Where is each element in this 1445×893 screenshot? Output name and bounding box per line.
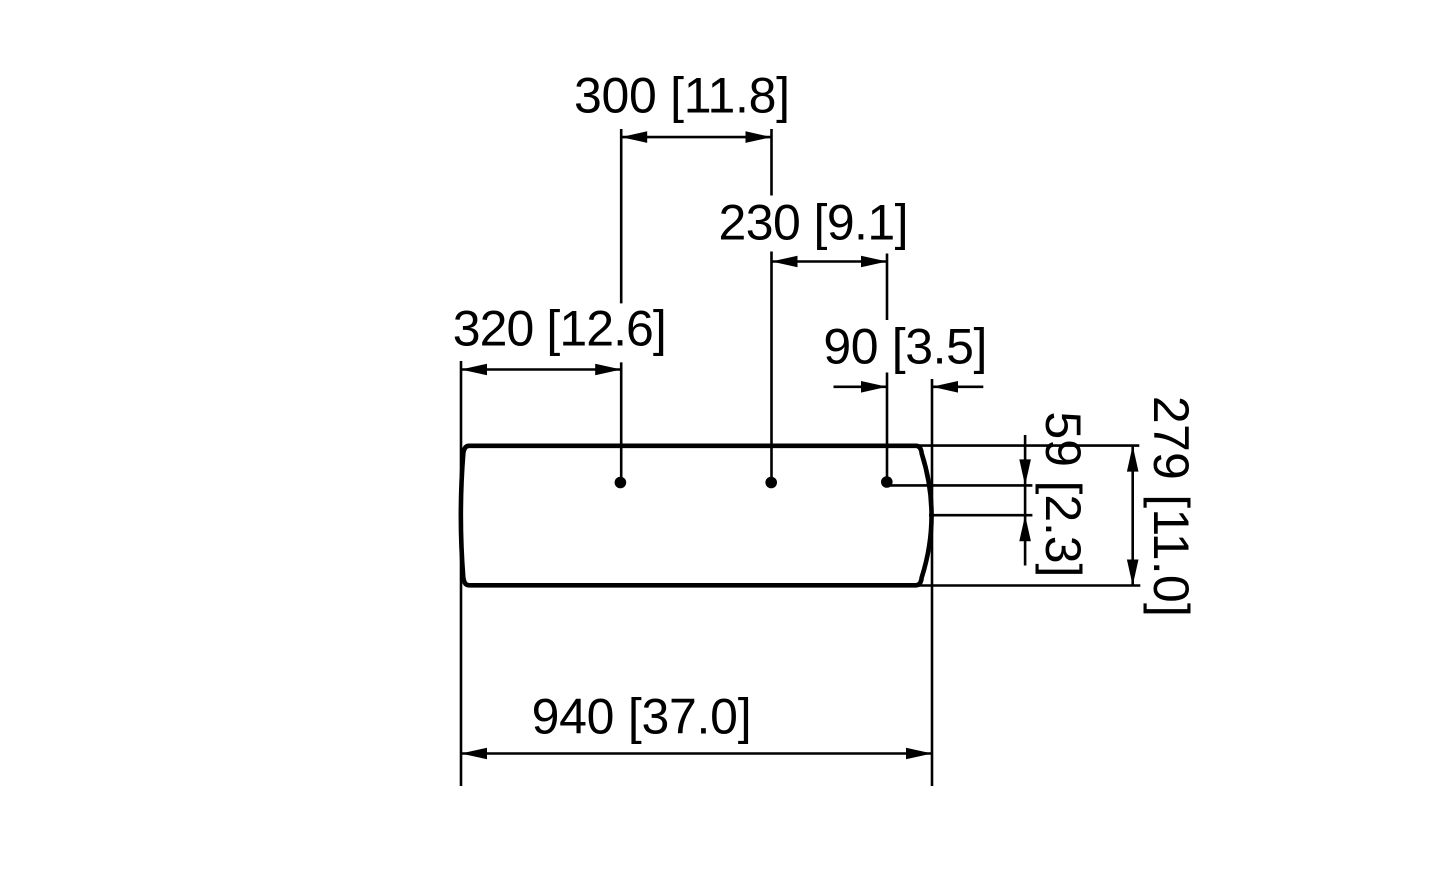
svg-text:279 [11.0]: 279 [11.0]	[1143, 396, 1199, 617]
svg-text:940 [37.0]: 940 [37.0]	[532, 689, 752, 745]
arrowhead 320 right	[595, 364, 621, 376]
svg-text:90 [3.5]: 90 [3.5]	[823, 319, 987, 375]
extension line at hole level to the right (59-dim upper)	[884, 484, 1032, 487]
extension line part top edge to the right (279-dim)	[918, 444, 1139, 447]
part outline (top view of panel)	[461, 446, 932, 586]
arrowhead 59 top (points down, outside)	[1019, 459, 1031, 485]
arrowhead 90 left (points right, outside)	[861, 381, 887, 393]
hole H1	[615, 477, 627, 489]
arrowhead 300 left	[621, 131, 647, 143]
svg-text:59 [2.3]: 59 [2.3]	[1035, 411, 1091, 577]
arrowhead 300 right	[746, 131, 772, 143]
svg-text:320 [12.6]: 320 [12.6]	[453, 301, 667, 357]
hole H2	[765, 477, 777, 489]
extension line right part edge (x=932)	[931, 379, 934, 786]
extension line from hole H3 up to 230-dim (broken at 90 text)	[886, 254, 889, 483]
arrowhead 940 left	[461, 748, 487, 760]
extension line lower feature (59-dim lower)	[929, 514, 1032, 517]
arrowhead 90 right (points left, outside)	[932, 381, 958, 393]
arrowhead 279 top (points up)	[1127, 446, 1139, 472]
arrowhead 230 left	[772, 256, 798, 268]
arrowhead 230 right	[861, 256, 887, 268]
arrowhead 59 bottom (points up, outside)	[1019, 515, 1031, 541]
extension line from hole H2 up to 300-dim (broken at 230 text)	[770, 129, 773, 483]
dimension line 59 (vertical, outside arrows)	[1024, 435, 1027, 566]
svg-text:300 [11.8]: 300 [11.8]	[574, 68, 790, 124]
dimension line 300	[621, 136, 771, 139]
extension line part bottom edge to the right (279-dim)	[918, 584, 1140, 587]
extension line left part edge (x=461)	[460, 361, 463, 786]
dimension line 320	[461, 368, 621, 371]
dimension line 940	[461, 752, 932, 755]
svg-text:230 [9.1]: 230 [9.1]	[719, 195, 909, 251]
hole H3	[881, 476, 893, 488]
dimension line 90 (outside tails)	[834, 385, 984, 388]
arrowhead 279 bottom (points down)	[1127, 560, 1139, 586]
arrowhead 940 right	[906, 748, 932, 760]
arrowhead 320 left	[461, 364, 487, 376]
dimension line 230	[772, 260, 888, 263]
extension line from hole H1 up to 300-dim	[620, 129, 623, 483]
dimension line 279 (vertical)	[1131, 446, 1134, 586]
